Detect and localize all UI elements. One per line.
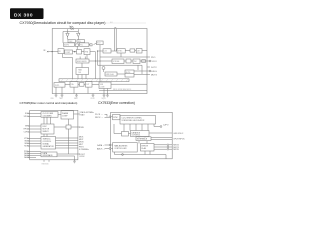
wire corrector to encoder vertical — [138, 141, 140, 143]
edge detector block — [77, 50, 82, 55]
svg-text:VSS: VSS — [51, 98, 54, 100]
svg-text:GENERATOR: GENERATOR — [43, 145, 55, 148]
input pin stub RF — [48, 51, 58, 53]
svg-text:TEST: TEST — [59, 98, 63, 100]
svg-text:CX7930(Demodulation circuit fo: CX7930(Demodulation circuit for compact … — [20, 21, 106, 25]
svg-text:INTERFACE: INTERFACE — [43, 154, 54, 157]
ground G4 — [92, 94, 95, 98]
motor control block — [41, 137, 56, 150]
IC U301 outer box — [111, 112, 173, 159]
wire VCO stem down to rail — [99, 45, 101, 82]
svg-text:CX7933(Error correction): CX7933(Error correction) — [98, 101, 135, 105]
top feed pair into sync detector — [113, 29, 115, 52]
input pin circle left — [109, 116, 111, 118]
svg-text:CNT: CNT — [137, 50, 140, 52]
svg-text:CONTROL: CONTROL — [132, 135, 141, 137]
wire control bottom — [99, 90, 147, 92]
bottom wire with node — [115, 154, 167, 156]
data bus control block — [131, 131, 150, 137]
svg-text:C2PO: C2PO — [24, 132, 30, 134]
svg-text:CODE: CODE — [100, 86, 105, 88]
svg-text:RF: RF — [59, 51, 61, 53]
mute control block — [125, 70, 134, 77]
D/A interface block — [70, 82, 78, 88]
pin tick P1 — [147, 56, 150, 58]
svg-text:SUB: SUB — [100, 84, 103, 86]
node dot after comparator — [74, 51, 75, 52]
svg-text:4.2336MHz: 4.2336MHz — [79, 149, 89, 151]
svg-text:INTPL: INTPL — [55, 85, 60, 87]
svg-text:ABCK →: ABCK → — [97, 147, 105, 150]
svg-text:MON: MON — [24, 146, 29, 148]
interpolation block — [54, 83, 65, 88]
svg-text:MUTG: MUTG — [151, 75, 157, 77]
rail right inner — [68, 119, 70, 125]
svg-text:GFS XSLC: GFS XSLC — [173, 133, 183, 135]
wire crystal bracket — [68, 29, 79, 31]
wire demod out — [89, 60, 112, 62]
svg-text:COMP: COMP — [62, 116, 68, 118]
svg-text:XRST: XRST — [74, 98, 78, 100]
svg-text:DX 300: DX 300 — [14, 12, 33, 18]
tiny buffer block before edge — [142, 60, 146, 63]
sub-code block — [99, 82, 111, 89]
input arrows motor left — [28, 138, 42, 140]
wire bracket left drop — [62, 32, 64, 43]
wire phase det to pin — [71, 126, 80, 128]
svg-text:DATA →: DATA → — [97, 144, 104, 147]
RF amp block — [58, 49, 64, 54]
svg-text:CONTROLLER: CONTROLLER — [114, 148, 127, 150]
svg-text:CLOK: CLOK — [91, 98, 95, 100]
wire up from edge det — [76, 46, 78, 49]
crystal X101 — [70, 26, 73, 29]
input arrows bottom left — [28, 151, 42, 153]
C1/C2 corrector block — [120, 116, 156, 125]
svg-text:WFCK SCOR SBSO EXCK: WFCK SCOR SBSO EXCK — [113, 89, 131, 91]
junction dots on demod wire — [95, 60, 96, 61]
ground G2 — [61, 94, 64, 98]
svg-text:RF: RF — [44, 50, 46, 52]
sync separator small block — [113, 115, 121, 120]
asymmetry corrector block — [64, 43, 75, 47]
pin tick P2 with circle — [147, 60, 149, 62]
svg-text:XTAO: XTAO — [80, 114, 86, 117]
svg-text:PLL: PLL — [80, 45, 83, 47]
wire stubs data bus to interface — [138, 137, 140, 138]
EFM comparator block — [65, 50, 73, 54]
svg-text:C2PO: C2PO — [163, 125, 169, 127]
left pin circles — [109, 144, 111, 146]
wire sync row to pin row — [120, 53, 122, 57]
ground G5 — [103, 94, 106, 98]
svg-text:COMP: COMP — [65, 52, 70, 54]
phase comp block — [84, 49, 90, 55]
svg-text:FSW: FSW — [80, 127, 84, 129]
svg-text:4.3218MHz: 4.3218MHz — [43, 115, 52, 117]
output register block — [85, 82, 92, 88]
svg-text:SQSY: SQSY — [102, 98, 106, 100]
verticals from clock gen — [43, 117, 45, 124]
wire to right pin row — [140, 60, 147, 62]
wire stubs servo to timing block — [43, 134, 45, 137]
strobe thin block — [136, 137, 151, 141]
oscillator block pair — [68, 40, 76, 43]
RAM address controller block — [113, 143, 138, 153]
small block after asym — [75, 44, 78, 46]
ground G6 — [106, 94, 109, 98]
priority encoder block — [141, 144, 155, 152]
counter block — [136, 49, 142, 53]
wire bottom row chain — [65, 84, 70, 86]
crystal osc block — [61, 111, 74, 119]
pin tick P5 — [147, 74, 150, 76]
svg-text:INTERFACE: INTERFACE — [137, 138, 148, 141]
output timing block — [133, 59, 140, 64]
input wires top left — [28, 113, 42, 115]
svg-text:XPLH RFCK: XPLH RFCK — [173, 139, 185, 141]
data strobe block — [112, 59, 124, 64]
faint rule top right — [105, 22, 146, 24]
svg-text:VCOI: VCOI — [152, 61, 157, 63]
phase detector small block — [66, 125, 71, 129]
model label box DX 300 — [10, 8, 44, 19]
svg-text:PLCK →: PLCK → — [95, 114, 103, 116]
servo control block — [41, 124, 54, 134]
power pin stubs bottom — [43, 160, 45, 162]
wire servo to phase det — [54, 126, 66, 128]
sync block small — [122, 132, 129, 137]
ground pins below diagram1 — [55, 94, 109, 98]
svg-text:MUTE: MUTE — [126, 72, 131, 74]
guard circle node — [102, 67, 105, 70]
right pin stubs diagram1 — [147, 57, 151, 75]
svg-text:CX7935(Disc motor control and: CX7935(Disc motor control and interpolat… — [20, 101, 78, 105]
svg-text:VSS VDD: VSS VDD — [42, 164, 50, 166]
wire clockgen to osc — [58, 114, 61, 116]
small block after PLL — [90, 44, 92, 46]
wire clock regen stem — [98, 50, 104, 52]
output wires motor right — [56, 137, 78, 139]
wire left small links — [114, 133, 122, 135]
interpolation block — [41, 152, 57, 157]
long control wire — [98, 64, 143, 66]
svg-text:SERVO: SERVO — [43, 131, 50, 133]
wire phase comp to rail — [90, 51, 96, 53]
small divider block — [130, 49, 135, 52]
verticals below corrector — [123, 124, 125, 132]
wire row1 links — [94, 43, 97, 45]
clock generator block — [41, 112, 58, 118]
svg-text:RFCK →: RFCK → — [95, 117, 103, 119]
svg-text:DA13: DA13 — [24, 156, 29, 159]
small latch block — [126, 59, 131, 63]
buffer B2 triangle — [77, 32, 79, 34]
wire subcode out — [111, 83, 147, 85]
IC U201 outer box — [30, 110, 78, 159]
wires RAM to bus — [77, 75, 79, 79]
clock regen block — [103, 49, 111, 53]
svg-text:SYNDROME CALCULATOR: SYNDROME CALCULATOR — [122, 119, 146, 122]
svg-text:SYNC: SYNC — [113, 117, 118, 119]
svg-text:EFLG: EFLG — [152, 71, 158, 73]
wire osc to pin — [74, 113, 78, 115]
svg-text:XPCK: XPCK — [24, 116, 30, 118]
ground below right corner — [73, 160, 76, 163]
error flag block — [105, 72, 117, 76]
VCO block — [97, 41, 104, 45]
wires to bottom edge — [55, 87, 57, 93]
sync detector block — [117, 49, 125, 53]
input arrows mid left — [28, 125, 42, 127]
ground G3 — [75, 94, 78, 98]
wire rail left of EFM — [63, 54, 73, 79]
RAM block — [76, 68, 89, 75]
data bus band — [59, 79, 129, 82]
small gate block — [79, 83, 84, 87]
pin tick P3 — [147, 66, 150, 68]
svg-text:LRCK: LRCK — [80, 156, 86, 158]
IC U101 outer box — [52, 29, 147, 94]
output circle right top — [154, 126, 160, 128]
EFM demodulator block — [76, 59, 89, 63]
buffer B1 triangle — [67, 32, 69, 34]
wire bus to right edge — [149, 132, 172, 134]
svg-text:PDO: PDO — [151, 57, 156, 59]
svg-text:FLAG: FLAG — [142, 147, 147, 150]
svg-text:RFCK: RFCK — [24, 129, 30, 131]
svg-text:OUT: OUT — [86, 84, 89, 86]
PLL block — [80, 43, 89, 47]
pin tick P4 with circle — [147, 70, 149, 72]
wire row3 chain — [111, 50, 117, 52]
svg-text:EFM DEMOD: EFM DEMOD — [77, 61, 88, 63]
wire interp to pin — [57, 153, 80, 155]
wires encoder to right pins with circles — [154, 144, 167, 146]
svg-text:DOTX: DOTX — [151, 67, 157, 69]
svg-text:MNT0: MNT0 — [173, 149, 179, 151]
wire lower aux — [57, 155, 75, 157]
svg-text:STROBE: STROBE — [113, 61, 120, 63]
rail A vertical — [95, 52, 97, 79]
ground G1 — [55, 94, 58, 98]
